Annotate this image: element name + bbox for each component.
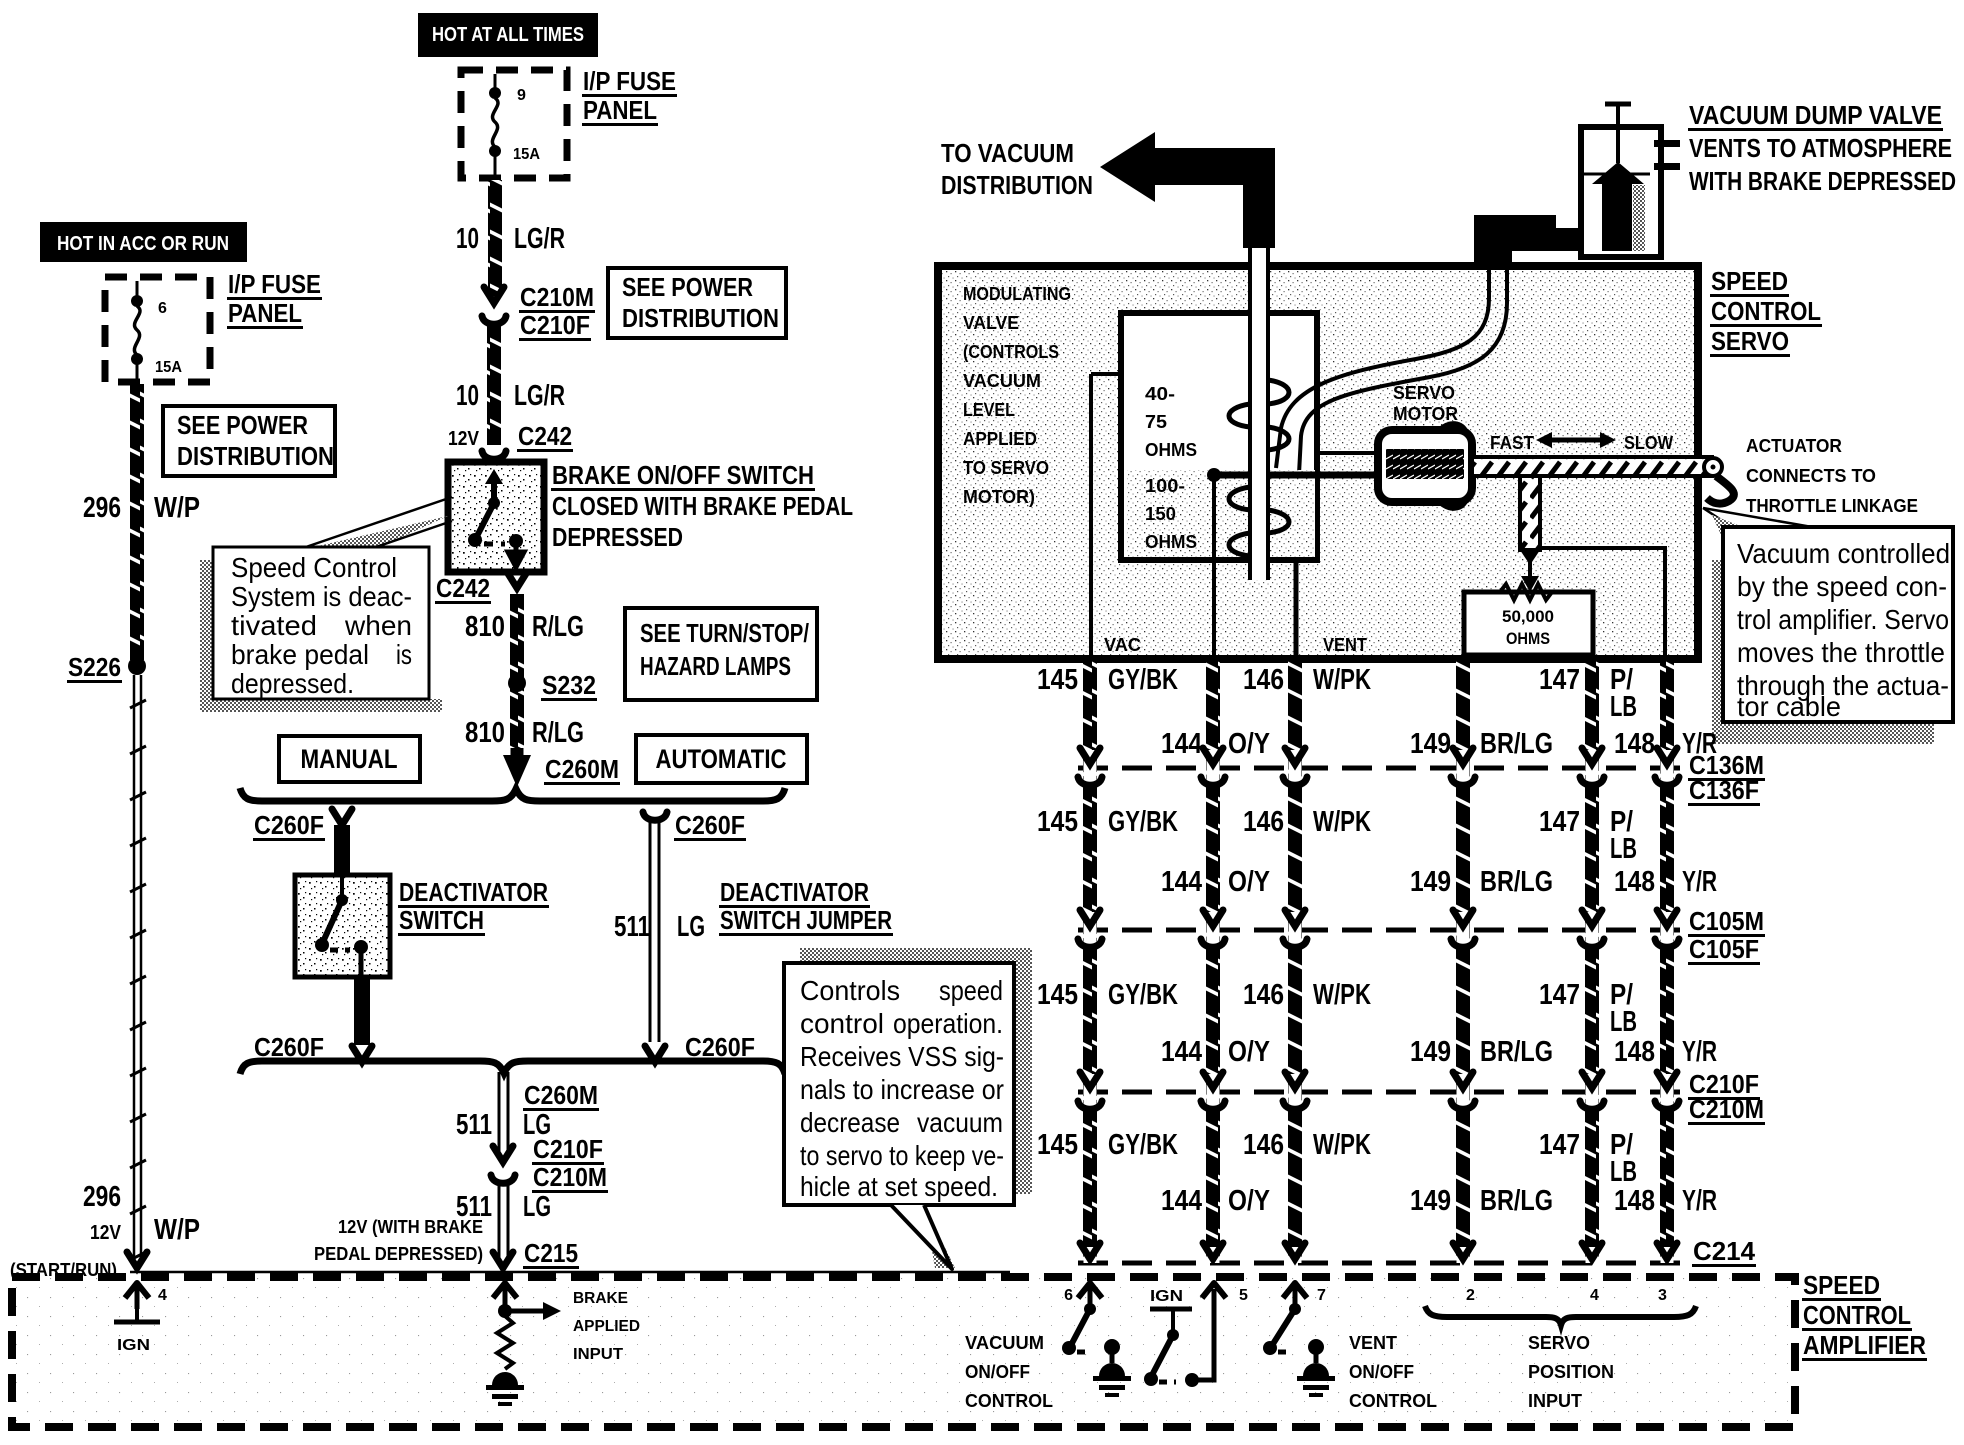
svg-text:5: 5 — [1239, 1287, 1248, 1304]
svg-text:hicle at set speed.: hicle at set speed. — [800, 1171, 998, 1202]
svg-text:144: 144 — [1161, 728, 1202, 760]
svg-text:Y/R: Y/R — [1682, 866, 1717, 898]
svg-text:SWITCH: SWITCH — [399, 905, 484, 935]
svg-text:S232: S232 — [542, 670, 596, 700]
svg-text:147: 147 — [1539, 664, 1580, 696]
svg-text:146: 146 — [1243, 664, 1284, 696]
svg-text:Speed Control: Speed Control — [231, 552, 397, 583]
svg-text:4: 4 — [158, 1287, 167, 1304]
svg-text:SEE POWER: SEE POWER — [622, 272, 753, 302]
svg-text:150: 150 — [1145, 504, 1176, 524]
svg-text:6: 6 — [158, 300, 167, 317]
svg-text:C214: C214 — [1693, 1236, 1756, 1266]
svg-text:C260M: C260M — [524, 1080, 598, 1110]
svg-text:IGN: IGN — [117, 1337, 150, 1354]
svg-text:MOTOR): MOTOR) — [963, 487, 1035, 507]
svg-text:C210F: C210F — [520, 310, 590, 340]
svg-text:15A: 15A — [155, 359, 182, 376]
svg-text:DEACTIVATOR: DEACTIVATOR — [720, 877, 869, 907]
svg-text:CLOSED WITH BRAKE PEDAL: CLOSED WITH BRAKE PEDAL — [552, 491, 853, 521]
svg-text:W/PK: W/PK — [1313, 806, 1371, 838]
svg-text:by the speed con-: by the speed con- — [1737, 571, 1947, 602]
svg-text:DEPRESSED: DEPRESSED — [552, 522, 683, 552]
svg-text:VACUUM: VACUUM — [965, 1333, 1044, 1353]
svg-text:SERVO: SERVO — [1528, 1333, 1590, 1353]
svg-text:Controls: Controls — [800, 975, 900, 1006]
svg-text:W/P: W/P — [154, 1214, 200, 1246]
svg-text:10: 10 — [456, 380, 479, 412]
svg-text:moves the throttle: moves the throttle — [1737, 637, 1945, 668]
svg-text:SPEED: SPEED — [1803, 1270, 1880, 1300]
svg-text:12V: 12V — [448, 428, 480, 450]
svg-text:147: 147 — [1539, 979, 1580, 1011]
svg-text:50,000: 50,000 — [1502, 607, 1554, 626]
svg-text:100-: 100- — [1145, 476, 1185, 496]
svg-text:BRAKE ON/OFF SWITCH: BRAKE ON/OFF SWITCH — [552, 460, 814, 490]
svg-text:147: 147 — [1539, 1129, 1580, 1161]
svg-text:C260M: C260M — [545, 754, 619, 784]
svg-text:LG: LG — [523, 1191, 551, 1223]
svg-text:BR/LG: BR/LG — [1480, 1036, 1553, 1068]
svg-text:SLOW: SLOW — [1624, 433, 1673, 453]
svg-text:144: 144 — [1161, 1185, 1202, 1217]
svg-text:149: 149 — [1410, 728, 1451, 760]
svg-text:VAC: VAC — [1104, 635, 1141, 655]
svg-text:W/PK: W/PK — [1313, 664, 1371, 696]
svg-text:System is deac-: System is deac- — [231, 581, 412, 612]
svg-text:Receives VSS sig-: Receives VSS sig- — [800, 1041, 1004, 1072]
svg-text:O/Y: O/Y — [1228, 866, 1270, 898]
svg-text:MANUAL: MANUAL — [301, 744, 398, 774]
svg-text:C242: C242 — [518, 421, 572, 451]
svg-text:POSITION: POSITION — [1528, 1362, 1614, 1382]
svg-text:C215: C215 — [524, 1238, 578, 1268]
svg-text:W/P: W/P — [154, 492, 200, 524]
svg-text:VENT: VENT — [1349, 1333, 1397, 1353]
svg-text:TO VACUUM: TO VACUUM — [941, 138, 1074, 168]
svg-text:VALVE: VALVE — [963, 313, 1019, 333]
svg-text:is: is — [396, 639, 412, 670]
svg-text:CONTROL: CONTROL — [1803, 1300, 1911, 1330]
svg-text:CONNECTS TO: CONNECTS TO — [1746, 466, 1876, 486]
svg-text:296: 296 — [83, 1181, 121, 1213]
svg-text:LG/R: LG/R — [514, 380, 565, 412]
svg-text:HAZARD LAMPS: HAZARD LAMPS — [640, 651, 791, 681]
svg-text:GY/BK: GY/BK — [1108, 1129, 1178, 1161]
svg-text:ON/OFF: ON/OFF — [965, 1362, 1030, 1382]
svg-text:HOT AT ALL TIMES: HOT AT ALL TIMES — [432, 24, 584, 46]
svg-text:145: 145 — [1037, 979, 1078, 1011]
svg-text:296: 296 — [83, 492, 121, 524]
svg-text:12V: 12V — [90, 1222, 122, 1244]
svg-text:vacuum: vacuum — [917, 1107, 1003, 1138]
svg-text:tivated: tivated — [231, 610, 317, 641]
svg-text:4: 4 — [1590, 1287, 1599, 1304]
svg-text:DISTRIBUTION: DISTRIBUTION — [622, 303, 779, 333]
svg-text:C242: C242 — [436, 573, 490, 603]
svg-text:LB: LB — [1610, 1006, 1637, 1038]
svg-text:INPUT: INPUT — [573, 1346, 623, 1363]
svg-text:BRAKE: BRAKE — [573, 1290, 628, 1307]
svg-text:511: 511 — [614, 911, 650, 943]
svg-text:146: 146 — [1243, 1129, 1284, 1161]
svg-text:Y/R: Y/R — [1682, 1036, 1717, 1068]
svg-text:O/Y: O/Y — [1228, 1185, 1270, 1217]
svg-text:147: 147 — [1539, 806, 1580, 838]
svg-text:operation.: operation. — [893, 1008, 1003, 1039]
svg-text:12V (WITH BRAKE: 12V (WITH BRAKE — [338, 1217, 483, 1237]
svg-text:tor cable: tor cable — [1737, 691, 1841, 722]
svg-text:146: 146 — [1243, 979, 1284, 1011]
svg-text:810: 810 — [465, 611, 505, 643]
svg-text:C210M: C210M — [1689, 1094, 1764, 1124]
svg-text:511: 511 — [456, 1109, 492, 1141]
svg-text:BR/LG: BR/LG — [1480, 728, 1553, 760]
svg-text:Y/R: Y/R — [1682, 1185, 1717, 1217]
svg-text:148: 148 — [1614, 728, 1655, 760]
svg-text:speed: speed — [939, 975, 1003, 1006]
svg-text:LB: LB — [1610, 691, 1637, 723]
svg-text:LG/R: LG/R — [514, 223, 565, 255]
svg-text:75: 75 — [1145, 412, 1167, 432]
svg-text:CONTROL: CONTROL — [965, 1391, 1053, 1411]
svg-text:LEVEL: LEVEL — [963, 400, 1015, 420]
svg-text:SEE POWER: SEE POWER — [177, 410, 308, 440]
svg-text:C210M: C210M — [520, 282, 594, 312]
svg-text:DEACTIVATOR: DEACTIVATOR — [399, 877, 548, 907]
svg-text:2: 2 — [1466, 1287, 1475, 1304]
svg-text:SERVO: SERVO — [1393, 383, 1455, 403]
svg-text:I/P FUSE: I/P FUSE — [228, 269, 321, 299]
svg-text:OHMS: OHMS — [1145, 440, 1197, 460]
svg-text:145: 145 — [1037, 1129, 1078, 1161]
svg-text:I/P FUSE: I/P FUSE — [583, 66, 676, 96]
svg-text:C210F: C210F — [533, 1134, 603, 1164]
svg-text:LB: LB — [1610, 1156, 1637, 1188]
svg-text:W/PK: W/PK — [1313, 979, 1371, 1011]
svg-text:BR/LG: BR/LG — [1480, 1185, 1553, 1217]
svg-text:ON/OFF: ON/OFF — [1349, 1362, 1414, 1382]
svg-text:15A: 15A — [513, 146, 540, 163]
svg-text:trol amplifier. Servo: trol amplifier. Servo — [1737, 604, 1949, 635]
svg-text:R/LG: R/LG — [532, 717, 584, 749]
svg-text:O/Y: O/Y — [1228, 728, 1270, 760]
svg-text:APPLIED: APPLIED — [963, 429, 1037, 449]
svg-text:to servo to keep ve-: to servo to keep ve- — [800, 1140, 1004, 1171]
svg-text:LG: LG — [677, 911, 705, 943]
svg-text:THROTTLE LINKAGE: THROTTLE LINKAGE — [1746, 496, 1918, 516]
svg-text:S226: S226 — [68, 652, 121, 682]
svg-text:LB: LB — [1610, 833, 1637, 865]
svg-text:144: 144 — [1161, 1036, 1202, 1068]
svg-text:VACUUM DUMP VALVE: VACUUM DUMP VALVE — [1689, 100, 1942, 130]
svg-text:GY/BK: GY/BK — [1108, 664, 1178, 696]
svg-text:9: 9 — [517, 87, 526, 104]
svg-text:ACTUATOR: ACTUATOR — [1746, 436, 1842, 456]
svg-text:145: 145 — [1037, 806, 1078, 838]
svg-text:C210M: C210M — [533, 1162, 607, 1192]
svg-text:HOT IN ACC OR RUN: HOT IN ACC OR RUN — [57, 233, 229, 255]
svg-text:nals to increase or: nals to increase or — [800, 1074, 1004, 1105]
svg-text:decrease: decrease — [800, 1107, 900, 1138]
svg-text:6: 6 — [1064, 1287, 1073, 1304]
svg-text:W/PK: W/PK — [1313, 1129, 1371, 1161]
svg-text:BR/LG: BR/LG — [1480, 866, 1553, 898]
svg-text:(CONTROLS: (CONTROLS — [963, 342, 1059, 362]
svg-text:C260F: C260F — [254, 810, 324, 840]
svg-text:OHMS: OHMS — [1506, 629, 1550, 648]
svg-text:10: 10 — [456, 223, 479, 255]
svg-text:AMPLIFIER: AMPLIFIER — [1803, 1330, 1926, 1360]
svg-text:OHMS: OHMS — [1145, 532, 1197, 552]
svg-text:3: 3 — [1658, 1287, 1667, 1304]
svg-text:SERVO: SERVO — [1711, 326, 1789, 356]
svg-text:148: 148 — [1614, 866, 1655, 898]
svg-text:TO SERVO: TO SERVO — [963, 458, 1049, 478]
svg-text:when: when — [344, 610, 412, 641]
svg-text:149: 149 — [1410, 1185, 1451, 1217]
svg-text:7: 7 — [1317, 1287, 1326, 1304]
svg-text:149: 149 — [1410, 1036, 1451, 1068]
svg-text:144: 144 — [1161, 866, 1202, 898]
svg-text:SEE TURN/STOP/: SEE TURN/STOP/ — [640, 618, 809, 648]
svg-text:CONTROL: CONTROL — [1349, 1391, 1437, 1411]
svg-text:R/LG: R/LG — [532, 611, 584, 643]
svg-text:C136F: C136F — [1689, 775, 1759, 805]
svg-text:control: control — [800, 1008, 884, 1039]
svg-text:VENT: VENT — [1323, 635, 1367, 655]
svg-text:AUTOMATIC: AUTOMATIC — [656, 744, 787, 774]
svg-text:145: 145 — [1037, 664, 1078, 696]
svg-text:VACUUM: VACUUM — [963, 371, 1041, 391]
svg-text:SPEED: SPEED — [1711, 266, 1788, 296]
svg-text:CONTROL: CONTROL — [1711, 296, 1821, 326]
svg-text:SWITCH JUMPER: SWITCH JUMPER — [720, 905, 892, 935]
svg-text:GY/BK: GY/BK — [1108, 979, 1178, 1011]
svg-text:C105F: C105F — [1689, 934, 1759, 964]
svg-text:810: 810 — [465, 717, 505, 749]
svg-text:PEDAL DEPRESSED): PEDAL DEPRESSED) — [314, 1244, 483, 1264]
svg-text:WITH BRAKE DEPRESSED: WITH BRAKE DEPRESSED — [1689, 166, 1956, 196]
svg-text:O/Y: O/Y — [1228, 1036, 1270, 1068]
svg-text:DISTRIBUTION: DISTRIBUTION — [177, 441, 334, 471]
svg-text:VENTS TO ATMOSPHERE: VENTS TO ATMOSPHERE — [1689, 133, 1952, 163]
svg-text:depressed.: depressed. — [231, 668, 354, 699]
svg-text:GY/BK: GY/BK — [1108, 806, 1178, 838]
svg-text:APPLIED: APPLIED — [573, 1318, 640, 1335]
svg-text:40-: 40- — [1145, 384, 1175, 404]
svg-text:FAST: FAST — [1490, 433, 1534, 453]
svg-text:MOTOR: MOTOR — [1393, 404, 1458, 424]
svg-text:149: 149 — [1410, 866, 1451, 898]
svg-text:146: 146 — [1243, 806, 1284, 838]
svg-text:brake pedal: brake pedal — [231, 639, 369, 670]
svg-text:IGN: IGN — [1150, 1288, 1183, 1305]
svg-text:148: 148 — [1614, 1036, 1655, 1068]
svg-text:PANEL: PANEL — [228, 298, 302, 328]
svg-text:PANEL: PANEL — [583, 95, 657, 125]
svg-text:MODULATING: MODULATING — [963, 284, 1071, 304]
svg-text:DISTRIBUTION: DISTRIBUTION — [941, 170, 1093, 200]
svg-text:INPUT: INPUT — [1528, 1391, 1582, 1411]
svg-text:C260F: C260F — [675, 810, 745, 840]
svg-text:148: 148 — [1614, 1185, 1655, 1217]
svg-text:C105M: C105M — [1689, 906, 1764, 936]
svg-text:Vacuum controlled: Vacuum controlled — [1737, 538, 1950, 569]
